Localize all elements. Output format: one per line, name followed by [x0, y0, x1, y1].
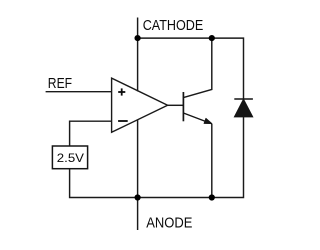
wire op-amp output to transistor base [168, 104, 184, 106]
wire cathode stub and op-amp positive supply [137, 18, 139, 92]
wire op-amp negative supply and anode stub [137, 120, 139, 231]
op-amp plus sign [118, 88, 125, 95]
node junction at cathode rail / collector [209, 35, 215, 41]
wire cathode rail, diode column, anode rail loop [70, 38, 244, 197]
node junction at cathode rail left [135, 35, 141, 41]
node junction at anode rail / emitter [209, 194, 215, 200]
wire transistor emitter vertical to anode rail [211, 124, 213, 198]
wire REF input [46, 91, 112, 93]
wire inverting input to 2.5V reference box [70, 121, 112, 146]
diode D1 (anode-cathode protection diode) filled triangle [234, 99, 252, 117]
svg-text:ANODE: ANODE [146, 214, 192, 231]
op-amp U1 (error amplifier triangle) [112, 78, 168, 132]
voltage reference V1 2.5V box [52, 146, 87, 169]
transistor Q1 base bar [182, 92, 184, 121]
op-amp minus sign [118, 120, 128, 122]
svg-text:2.5V: 2.5V [57, 151, 84, 165]
transistor Q1 emitter diagonal with arrowhead [183, 113, 211, 124]
svg-text:CATHODE: CATHODE [143, 17, 204, 34]
diode D1 cathode bar [234, 98, 253, 100]
svg-text:REF: REF [48, 75, 72, 92]
wire transistor collector to cathode rail [183, 38, 211, 98]
node junction at anode rail / op-amp supply [135, 194, 141, 200]
